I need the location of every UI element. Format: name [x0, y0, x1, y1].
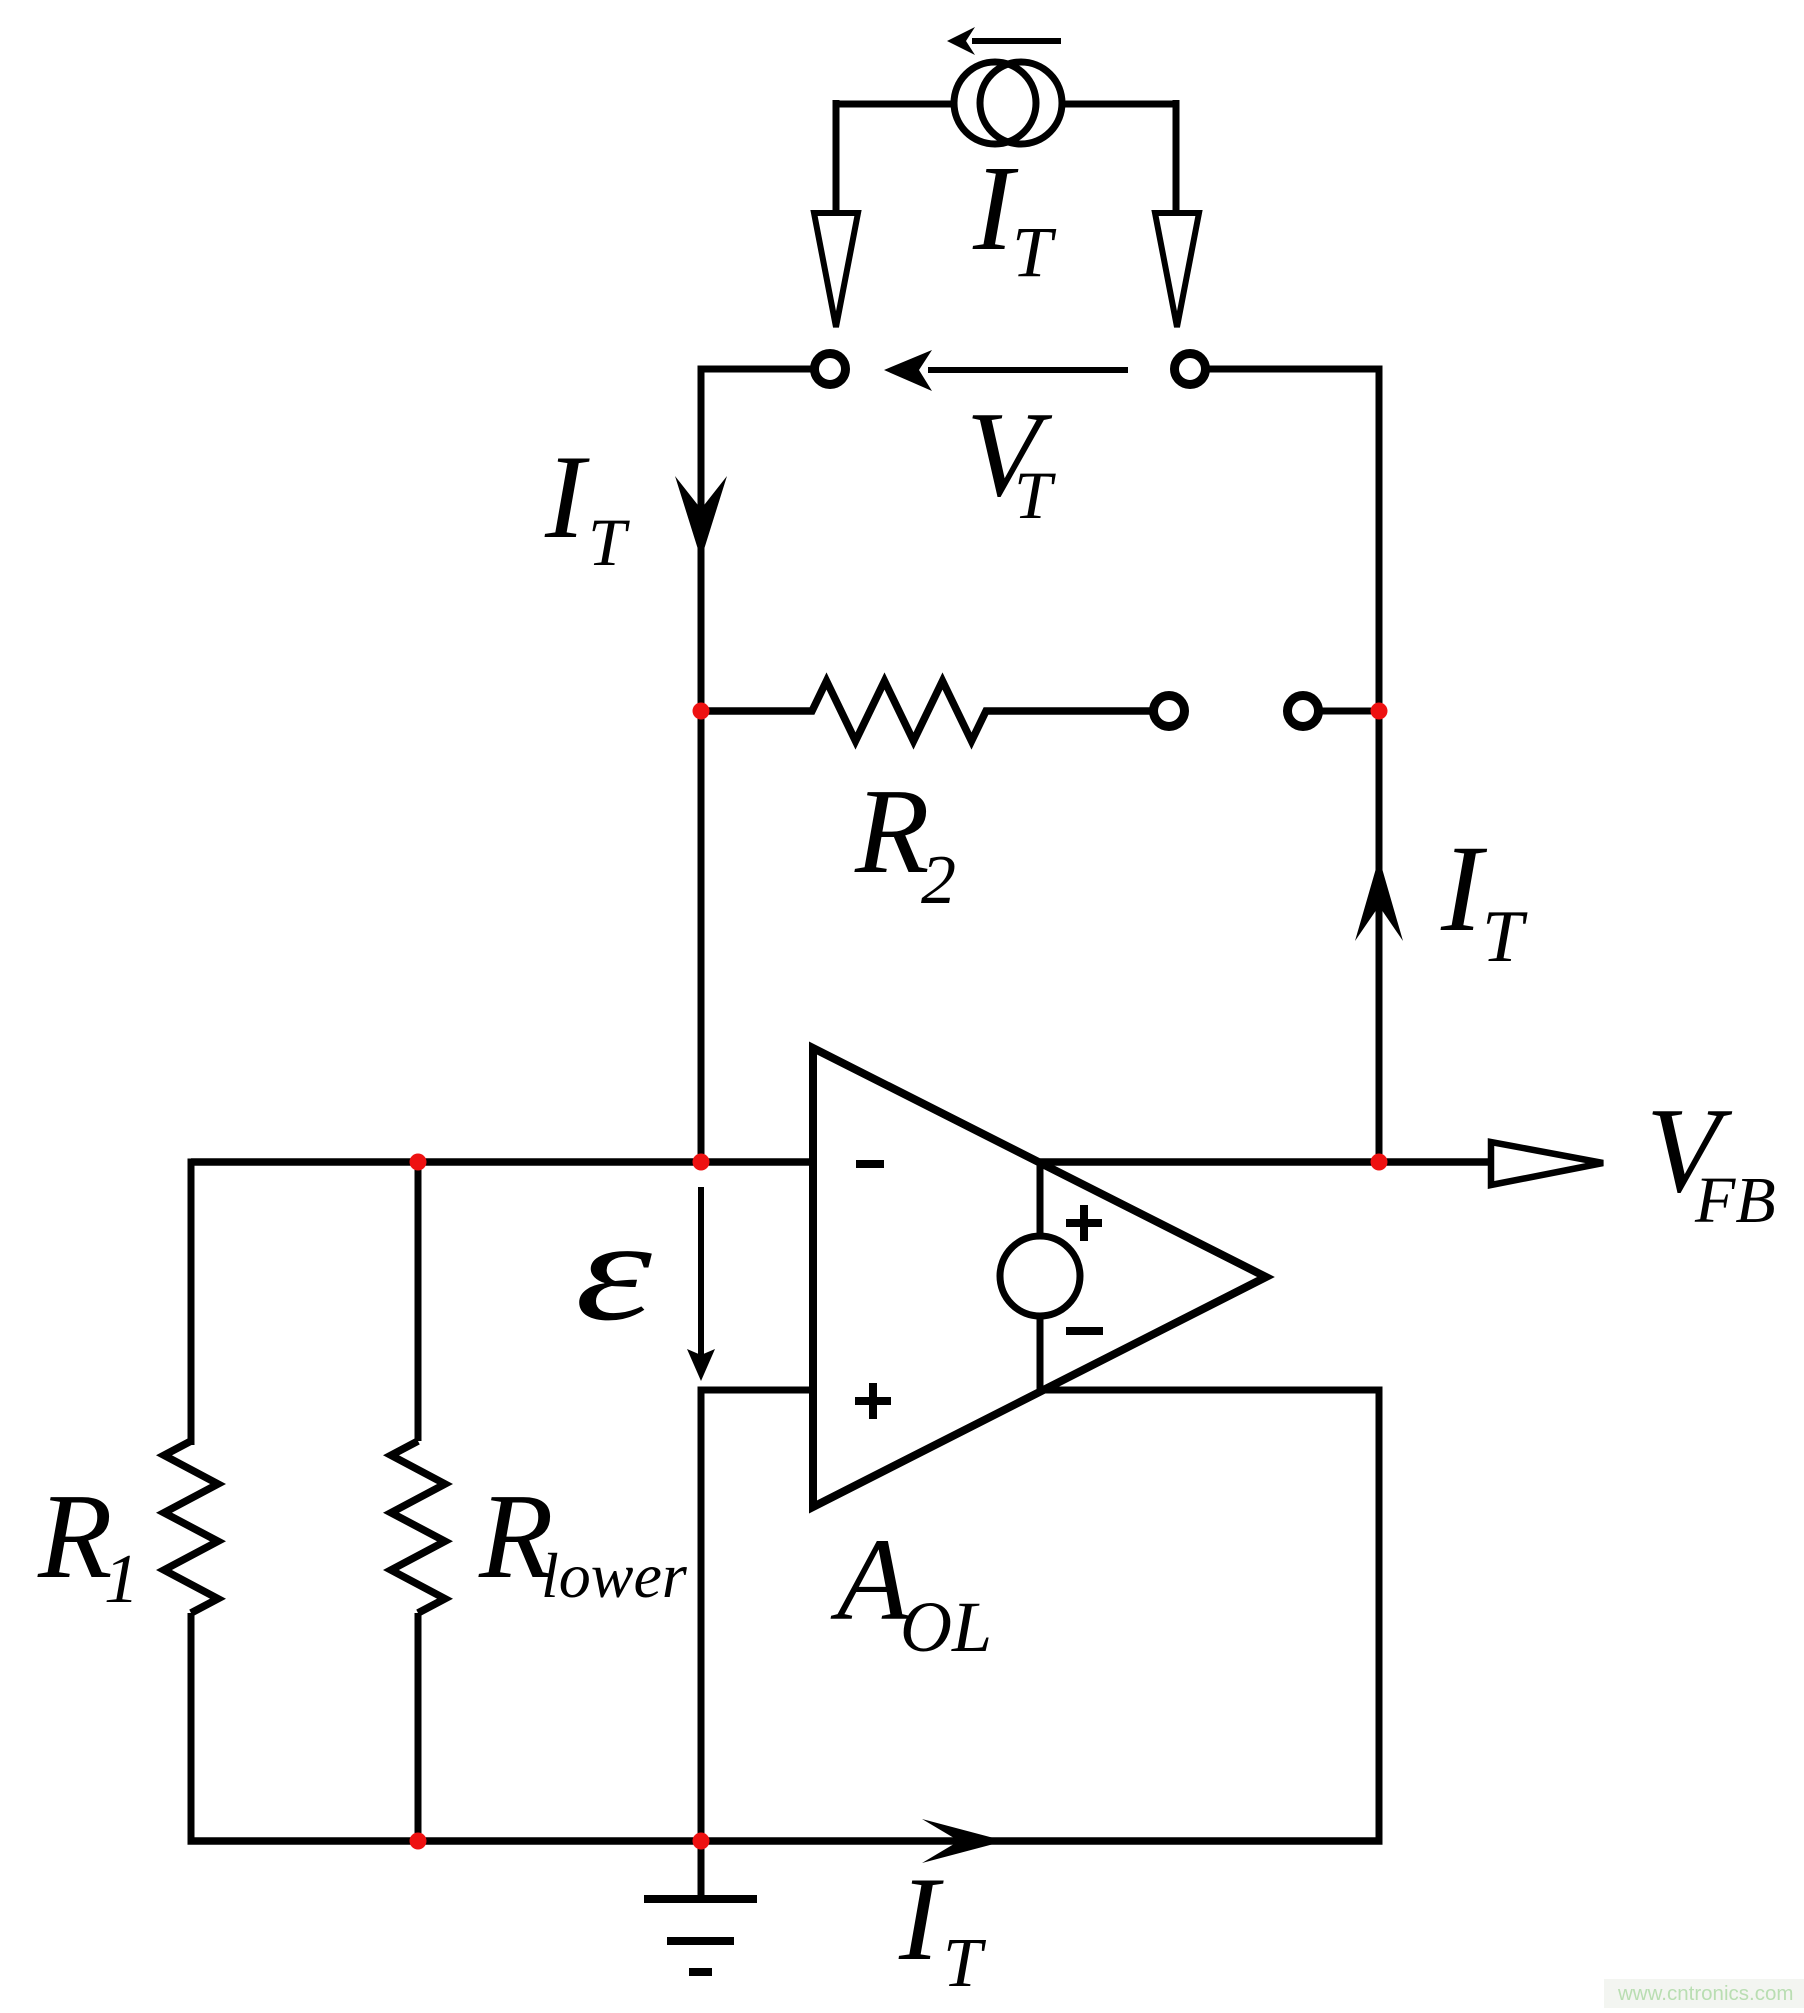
dependent source lead lower [1037, 1316, 1044, 1390]
arrow I_T up on right rail [1355, 858, 1403, 941]
resistor R_lower [391, 1441, 445, 1613]
svg-text:www.cntronics.com: www.cntronics.com [1617, 1982, 1793, 2005]
inverting input line [191, 1158, 813, 1166]
wire top right stub [1062, 101, 1176, 108]
wire: left branch down (to R1) [188, 1159, 195, 1446]
ground symbol [644, 1841, 757, 1972]
svg-text:2: 2 [921, 842, 956, 919]
junction: inverting input node [693, 1154, 710, 1171]
op-amp minus input sign [856, 1160, 884, 1168]
resistor R2 (horizontal) [701, 681, 1150, 741]
wire: right rail vertical upper (terminal line down to V_FB line) [1376, 366, 1383, 1163]
svg-text:T: T [1482, 896, 1528, 978]
dependent source circle [1000, 1236, 1080, 1316]
V_T annotation arrow (pointing left) [884, 350, 1128, 391]
junction: R_lower bottom node [410, 1833, 427, 1850]
wire top left stub [836, 101, 954, 108]
arrow I_T down on left rail [675, 476, 727, 559]
wire left drop to arrowhead [833, 100, 840, 211]
hollow arrowhead V_FB [1491, 1142, 1603, 1185]
terminal circle left [815, 354, 846, 385]
junction: R2 right node [1371, 703, 1388, 720]
wire: left rail vertical (terminal line down to inverting input line) [698, 366, 705, 1163]
svg-text:R: R [854, 764, 930, 899]
svg-text:FB: FB [1694, 1164, 1776, 1237]
svg-text:I: I [1440, 820, 1488, 957]
svg-text:I: I [898, 1852, 944, 1985]
wire: R_lower branch top lead [415, 1162, 422, 1441]
junction: R_lower top node [410, 1154, 427, 1171]
wire: left ground drop [698, 1387, 705, 1842]
svg-text:T: T [588, 504, 630, 580]
label I_T (left) [544, 430, 630, 580]
wire: R2 right terminal to right rail [1319, 708, 1379, 715]
label I_T (top) [972, 141, 1057, 292]
wire: R1 bottom lead [188, 1613, 195, 1845]
junction: ground node [693, 1833, 710, 1850]
svg-text:T: T [1014, 457, 1056, 533]
watermark [1604, 1979, 1804, 2008]
terminal circle right [1175, 354, 1206, 385]
epsilon annotation arrow [687, 1187, 715, 1381]
dependent source plus sign [1066, 1205, 1102, 1241]
svg-text:T: T [1012, 212, 1057, 292]
op-amp plus input sign [855, 1383, 891, 1419]
label A_OL [830, 1514, 992, 1667]
label V_T [966, 387, 1056, 533]
svg-text:ε: ε [575, 1192, 652, 1351]
wire: left terminal to left rail corner [698, 366, 812, 373]
wire right drop to arrowhead [1173, 100, 1180, 211]
op-amp A_OL triangle [813, 1048, 1266, 1507]
resistor R1 [164, 1441, 218, 1613]
label V_FB [1646, 1083, 1776, 1237]
wire: non-inverting input from ground rail [701, 1387, 813, 1394]
wire: R_lower bottom lead [415, 1613, 422, 1841]
arrow above current source [947, 27, 1061, 55]
label R_2 [854, 764, 956, 919]
svg-text:R: R [37, 1469, 113, 1604]
label I_T (right) [1440, 820, 1528, 978]
current source I_T (two overlapping circles) [954, 62, 1062, 144]
label R_lower [478, 1469, 688, 1611]
output line to V_FB [1040, 1158, 1491, 1166]
svg-text:A: A [830, 1514, 910, 1645]
label I_T (bottom) [898, 1852, 987, 2002]
bottom ground rail [188, 1837, 1383, 1845]
svg-text:I: I [544, 430, 590, 563]
R2 terminal circle left [1154, 696, 1185, 727]
junction: R2 left node [693, 703, 710, 720]
label R_1 [37, 1469, 139, 1618]
svg-text:T: T [943, 1925, 987, 2002]
dependent source lead upper [1037, 1162, 1044, 1236]
non-inverting continuation line [1040, 1387, 1383, 1394]
svg-text:lower: lower [541, 1540, 688, 1611]
dependent source minus sign [1066, 1327, 1103, 1335]
R2 terminal circle right [1288, 696, 1319, 727]
hollow arrowhead left (current into node) [814, 213, 858, 327]
svg-text:OL: OL [900, 1587, 992, 1667]
junction: V_FB output node [1371, 1154, 1388, 1171]
wire: right terminal to right rail corner [1206, 366, 1383, 373]
hollow arrowhead right [1155, 213, 1199, 327]
wire: right rail vertical lower [1376, 1390, 1383, 1845]
svg-text:1: 1 [104, 1541, 139, 1618]
arrow I_T on bottom rail [922, 1819, 1005, 1863]
